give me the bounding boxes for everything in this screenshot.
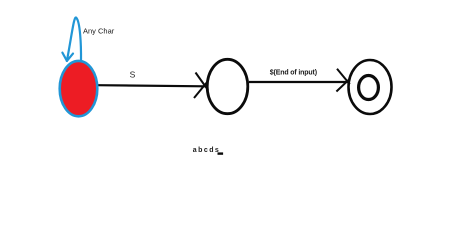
svg-text:$(End of input): $(End of input) [270, 69, 317, 76]
svg-text:Any Char: Any Char [83, 27, 115, 36]
svg-text:S: S [130, 69, 136, 79]
svg-text:a b c d s: a b c d s [193, 147, 219, 154]
